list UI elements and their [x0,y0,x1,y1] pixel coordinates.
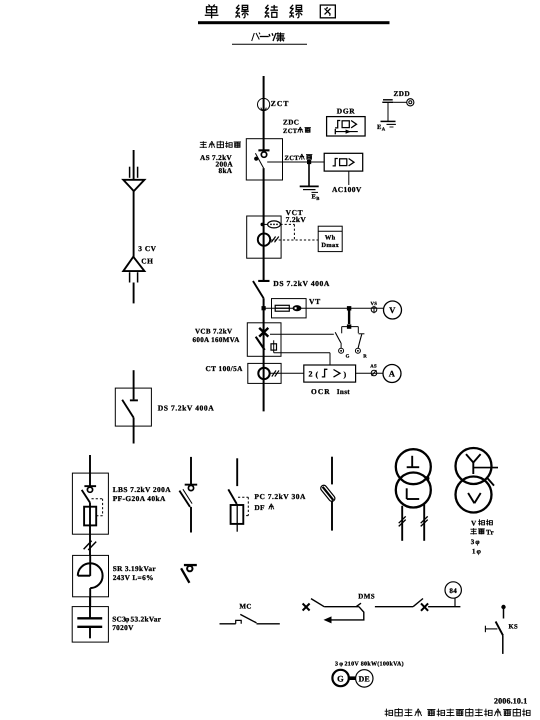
svg-text:DMS: DMS [358,592,375,600]
svg-text:G: G [337,673,344,683]
svg-text:): ) [344,370,347,379]
svg-text:1: 1 [472,548,476,556]
svg-text:3: 3 [471,538,475,546]
svg-text:φ: φ [339,661,343,667]
svg-text:R: R [363,354,367,360]
svg-text:VT: VT [309,297,321,306]
svg-text:SR 3.19kVar: SR 3.19kVar [113,564,157,573]
svg-text:2: 2 [309,370,313,379]
svg-text:DS 7.2kV 400A: DS 7.2kV 400A [273,279,330,288]
svg-text:G: G [346,354,350,360]
svg-text:B: B [316,196,319,202]
svg-text:A: A [382,127,386,133]
svg-text:8kA: 8kA [219,166,233,175]
svg-text:A: A [389,369,396,379]
svg-text:OCR: OCR [311,387,331,396]
svg-text:210V 80kW(100kVA): 210V 80kW(100kVA) [345,660,404,667]
svg-text:LBS 7.2kV 200A: LBS 7.2kV 200A [113,485,172,494]
svg-text:DS 7.2kV 400A: DS 7.2kV 400A [158,404,215,413]
svg-text:7020V: 7020V [112,623,134,632]
svg-text:3 CV: 3 CV [138,244,156,253]
svg-text:243V L=6%: 243V L=6% [113,573,154,582]
svg-text:7.2kV: 7.2kV [286,215,307,224]
svg-text:PF-G20A 40kA: PF-G20A 40kA [113,494,166,503]
svg-text:ZCT: ZCT [285,155,300,162]
svg-text:ZCT: ZCT [283,128,298,135]
svg-text:CH: CH [141,256,153,265]
svg-text:φ: φ [475,538,480,546]
svg-text:Dmax: Dmax [321,242,339,249]
svg-text:φ: φ [477,548,482,556]
svg-text:Tr: Tr [486,529,494,537]
svg-text:MC: MC [239,603,251,611]
svg-text:DGR: DGR [337,107,356,116]
svg-text:53.2kVar: 53.2kVar [131,615,162,624]
svg-text:AC100V: AC100V [332,185,362,194]
svg-text:ZCT: ZCT [271,99,290,108]
svg-text:V: V [471,520,476,528]
svg-text:ZDC: ZDC [283,119,299,127]
svg-text:V: V [389,305,396,315]
svg-text:84: 84 [449,587,457,595]
svg-text:AS: AS [370,363,377,369]
svg-text:600A 160MVA: 600A 160MVA [193,336,241,344]
svg-text:2006.10.1: 2006.10.1 [494,697,527,706]
svg-text:DE: DE [359,675,370,684]
svg-text:Wh: Wh [325,235,336,242]
svg-text:DF: DF [254,503,265,512]
svg-text:3: 3 [335,661,338,667]
svg-text:(: ( [316,370,319,379]
svg-text:CT 100/5A: CT 100/5A [206,364,244,373]
svg-text:VCB 7.2kV: VCB 7.2kV [195,328,233,336]
svg-text:ZDD: ZDD [394,90,411,98]
svg-text:PC 7.2kV 30A: PC 7.2kV 30A [254,492,306,501]
svg-text:Inst: Inst [337,388,350,396]
svg-text:KS: KS [509,623,519,630]
